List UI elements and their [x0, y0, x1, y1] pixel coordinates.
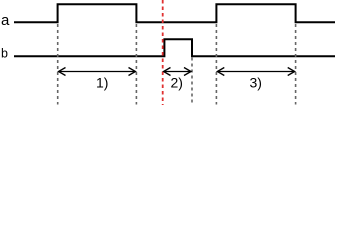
- wire signal a waveform: [14, 4, 335, 22]
- arrow interval 1: [59, 68, 136, 76]
- wire gray dashed marker at a falling edge 2: [295, 24, 297, 105]
- wire gray dashed marker at a falling edge 1: [135, 24, 137, 105]
- wire red dashed cursor line: [162, 0, 164, 105]
- wire gray dashed marker at b falling edge: [191, 58, 193, 105]
- wire gray dashed marker at a rising edge 1: [57, 24, 59, 105]
- wire signal b waveform: [14, 39, 335, 56]
- arrow interval 2: [164, 68, 192, 76]
- wire gray dashed marker at a rising edge 2: [215, 24, 217, 105]
- svg-text:3): 3): [250, 74, 262, 90]
- svg-text:1): 1): [96, 74, 108, 90]
- svg-text:a: a: [1, 12, 10, 29]
- svg-text:b: b: [1, 47, 8, 61]
- arrow interval 3: [217, 68, 294, 76]
- svg-text:2): 2): [171, 74, 183, 90]
